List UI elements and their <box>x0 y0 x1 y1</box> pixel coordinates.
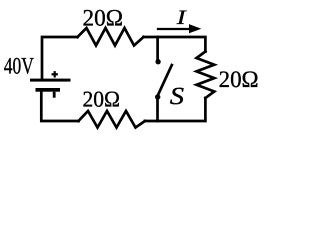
svg-text:40V: 40V <box>4 54 34 80</box>
svg-text:20Ω: 20Ω <box>219 67 259 93</box>
svg-text:20Ω: 20Ω <box>83 5 124 31</box>
svg-text:20Ω: 20Ω <box>83 87 121 112</box>
svg-text:I: I <box>176 7 188 29</box>
svg-text:S: S <box>170 83 184 110</box>
